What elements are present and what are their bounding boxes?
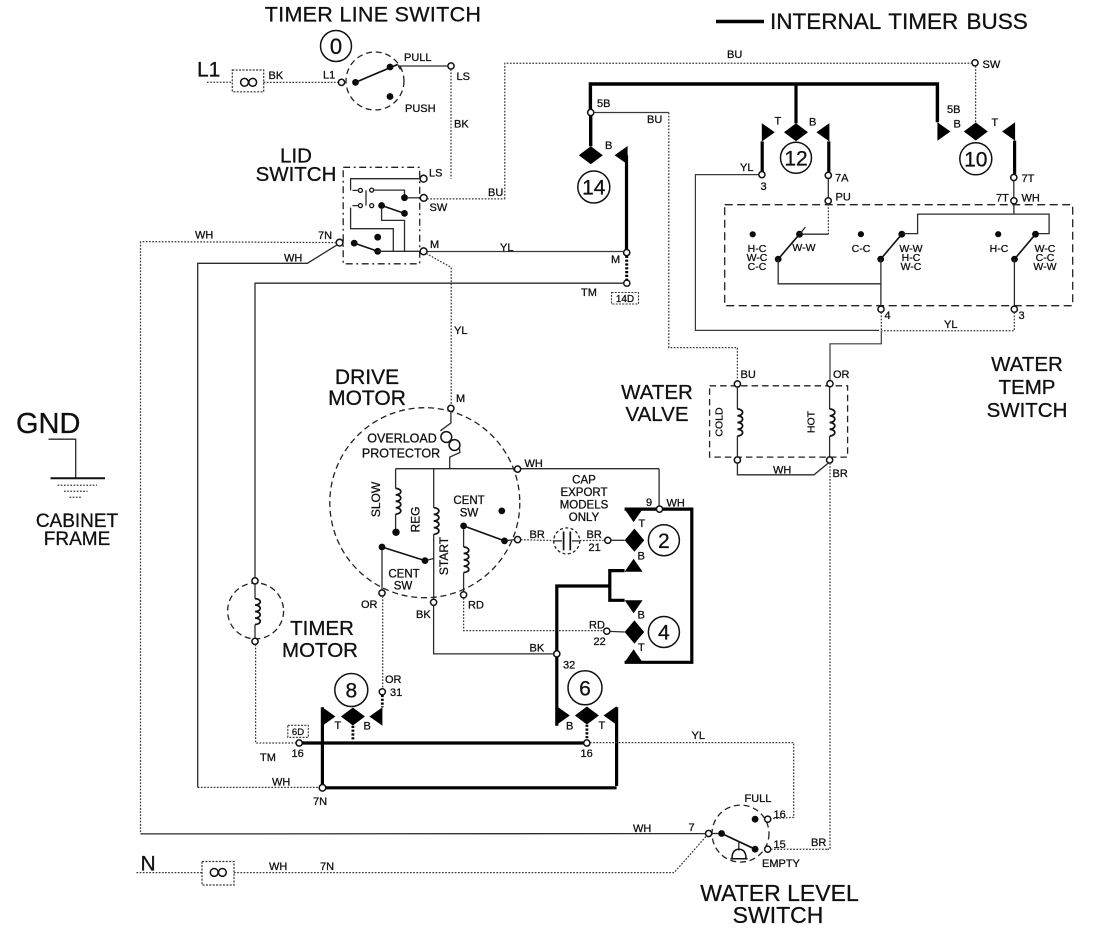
wire 22 to contact 4: [610, 630, 625, 633]
slow winding lead: [395, 469, 397, 489]
svg-text:T: T: [638, 642, 645, 654]
wire BU drop to water valve (dotted): [669, 113, 738, 382]
timer motor coil lead: [254, 584, 256, 599]
lid bottom arm: [354, 243, 378, 251]
terminal PU: [825, 198, 831, 204]
svg-text:0: 0: [330, 34, 342, 59]
label CABINET FRAME: [36, 511, 119, 550]
circle label 10: [960, 143, 992, 175]
svg-text:WH: WH: [1022, 193, 1040, 205]
wire unit1 to lower bus: [778, 259, 881, 284]
terminal BK of drive motor: [431, 599, 437, 605]
svg-text:L1: L1: [197, 58, 220, 81]
svg-text:16: 16: [292, 748, 304, 760]
wire 4 to YL node (dotted): [880, 312, 882, 330]
wire YL lid-M to timer-M: [427, 251, 624, 253]
svg-text:5B: 5B: [947, 104, 960, 116]
start winding lower lead: [463, 573, 465, 592]
svg-text:BR: BR: [530, 529, 545, 541]
timer motor enclosure (dashed circle): [228, 583, 284, 639]
wire L1 lead: [207, 81, 232, 83]
svg-text:GND: GND: [16, 408, 80, 440]
svg-text:WH: WH: [773, 465, 791, 477]
circle label 14: [578, 171, 610, 203]
svg-text:10: 10: [964, 148, 987, 171]
timer contact 12 diamond: [784, 123, 808, 141]
boxed label 14D: [612, 293, 639, 306]
terminal LS of lid switch: [420, 175, 427, 182]
svg-text:LS: LS: [429, 168, 442, 180]
slow winding end dot: [392, 529, 399, 536]
wire WH lid 7N lower branch: [198, 245, 338, 788]
upper bus 7T wire: [903, 214, 1049, 234]
svg-text:T: T: [639, 518, 646, 530]
svg-text:SWITCH: SWITCH: [733, 902, 824, 928]
svg-text:7T: 7T: [996, 193, 1009, 205]
switch arm pivot dot: [352, 79, 359, 86]
svg-text:14: 14: [582, 177, 606, 200]
left WH riser (dotted): [140, 242, 142, 834]
terminal 31: [379, 689, 385, 695]
svg-text:B: B: [566, 721, 573, 733]
thick stem 5B to contact 14: [589, 116, 592, 147]
wire BR valve to water level switch (dotted): [827, 463, 830, 849]
timer motor coil: [255, 599, 260, 625]
contact 6 right stem (thick): [615, 707, 618, 786]
wire BU from lid switch SW up and across to SW terminal: [505, 63, 972, 199]
timer motor bottom terminal: [252, 638, 258, 644]
PULL contact dot: [387, 64, 394, 71]
wire 9/WH thick frame: [625, 509, 692, 662]
bottom arm open contact dot: [374, 234, 381, 241]
terminal 4 of water temp switch: [878, 306, 884, 312]
start winding lead: [463, 529, 465, 547]
water level pivot dot: [718, 830, 725, 837]
wire OR lead: [381, 550, 383, 590]
terminal 15 of water level switch: [765, 846, 771, 852]
svg-text:C-C: C-C: [748, 261, 767, 273]
svg-text:8: 8: [345, 680, 357, 703]
svg-text:RD: RD: [468, 600, 484, 612]
terminal 16 left: [296, 740, 302, 746]
wire 5B to BU drop: [594, 112, 669, 114]
timer contact 6 diamond: [575, 707, 599, 725]
svg-text:T: T: [335, 720, 342, 732]
svg-text:YL: YL: [740, 162, 753, 174]
contact 2/4 B bracket (thick): [610, 571, 625, 601]
label CENT SW lower: [388, 569, 419, 593]
timer motor top terminal: [252, 578, 258, 584]
wire LS into box: [351, 179, 421, 191]
wire dot to SW terminal: [407, 197, 420, 199]
svg-text:WH: WH: [667, 498, 685, 510]
wire WH left riser to 7N bottom (dotted): [198, 786, 320, 788]
svg-text:4: 4: [658, 622, 670, 645]
wire row2 pivot down and to M: [382, 209, 420, 251]
svg-text:BK: BK: [269, 70, 284, 82]
svg-text:INTERNAL TIMER BUSS: INTERNAL TIMER BUSS: [770, 9, 1028, 34]
row2 contact small circle a: [358, 204, 362, 208]
timer contact 14 diamond: [579, 146, 603, 164]
svg-text:9: 9: [646, 497, 652, 509]
wire BR to 15 (dotted): [771, 848, 828, 850]
svg-text:BU: BU: [647, 114, 662, 126]
svg-text:CENT: CENT: [453, 495, 484, 507]
wire YL 3 to node (dotted): [881, 312, 1014, 331]
svg-text:DRIVE: DRIVE: [335, 366, 399, 389]
terminal 7T: [1011, 174, 1017, 180]
wire 21 to contact 2: [611, 539, 625, 541]
svg-text:BK: BK: [454, 119, 469, 131]
svg-text:SW: SW: [394, 581, 413, 593]
capacitor C1 enclosure (dashed circle): [554, 528, 580, 554]
svg-text:7T: 7T: [1022, 173, 1035, 185]
svg-text:CENT: CENT: [388, 569, 419, 581]
svg-text:BR: BR: [811, 837, 826, 849]
contact 12 left triangle: [762, 123, 775, 141]
temp sw unit3 arm: [1015, 234, 1036, 259]
contact 8 left triangle: [322, 707, 335, 725]
svg-text:TM: TM: [581, 287, 597, 299]
unit2 lower contact dot: [877, 256, 884, 263]
svg-text:PU: PU: [836, 192, 851, 204]
svg-text:B: B: [364, 721, 371, 733]
wire row2 left leg: [352, 205, 358, 207]
wire 7 to pivot: [712, 833, 719, 835]
reg winding lead: [433, 469, 435, 508]
wire RD motor to 22 (dotted): [464, 598, 604, 631]
svg-text:7A: 7A: [835, 173, 849, 185]
contact 12 right triangle: [816, 123, 829, 141]
temp sw unit2 arm: [881, 234, 902, 259]
svg-text:TIMER: TIMER: [290, 617, 354, 640]
capacitor C1: [554, 532, 580, 551]
labels W-W H-C W-C: [899, 243, 922, 273]
unit1 arm tick: [800, 227, 806, 234]
cold solenoid bottom terminal: [734, 457, 740, 463]
wire SW drop to contact 10 (dotted): [975, 66, 977, 123]
label CENT SW upper: [453, 495, 484, 520]
svg-text:SW: SW: [430, 202, 448, 214]
wire row2 left to bottom: [351, 208, 394, 252]
terminal OR of water valve: [827, 381, 833, 387]
svg-text:TIMER LINE SWITCH: TIMER LINE SWITCH: [265, 3, 482, 27]
boxed label 6D: [288, 725, 309, 738]
contact 4 top triangle: [625, 600, 643, 613]
svg-text:WH: WH: [195, 230, 213, 242]
title LID SWITCH: [256, 145, 337, 187]
overload protector squiggle upper: [440, 412, 451, 431]
svg-text:WATER: WATER: [621, 381, 693, 404]
drive motor enclosure (dashed circle): [330, 408, 520, 598]
wire timer motor to 16 (dotted): [256, 645, 296, 744]
wire 7T stem into bus: [1013, 204, 1015, 214]
terminal 21: [605, 537, 611, 543]
svg-text:OVERLOAD: OVERLOAD: [367, 432, 436, 446]
wire PU to W-W contact: [803, 233, 828, 235]
svg-text:WATER: WATER: [991, 353, 1063, 376]
thick stem contact10-T to terminal 7T: [1013, 141, 1016, 175]
thick stem buss to contact 12: [794, 84, 797, 123]
temp sw unit3 moving contact dot: [1032, 231, 1039, 238]
svg-text:TEMP: TEMP: [999, 376, 1056, 399]
wire row1 contact to SW: [374, 190, 405, 194]
contact 6 diamond stem (thick): [586, 725, 589, 740]
contact 8 right triangle: [369, 707, 382, 725]
terminal 5B: [588, 109, 594, 115]
svg-text:W-C: W-C: [901, 261, 922, 273]
water valve enclosure (dashed box): [710, 386, 848, 457]
terminal TM (timer): [624, 280, 630, 286]
upper cent sw open contact dot: [498, 508, 505, 515]
svg-text:RD: RD: [589, 620, 605, 632]
svg-text:B: B: [809, 117, 816, 129]
svg-text:M: M: [456, 393, 465, 405]
wire bottom contact bus: [378, 250, 405, 252]
contact 8 left stem (thick): [321, 707, 324, 786]
pressure bell stem: [738, 841, 740, 851]
internal timer buss (thick): [590, 84, 937, 122]
svg-text:SLOW: SLOW: [369, 481, 383, 517]
svg-text:B: B: [954, 119, 961, 131]
circle label 2: [648, 525, 679, 556]
wire YL terminal 3 to water temp sw 4: [695, 175, 879, 331]
row2 pivot dot: [378, 202, 385, 209]
terminal 3 of water temp switch: [1011, 306, 1017, 312]
timer contact 10 diamond: [964, 123, 988, 141]
fuse F1 box (line disconnect): [232, 70, 263, 92]
wire WH jumper cold to hot: [737, 463, 828, 475]
label CAP EXPORT MODELS ONLY: [560, 475, 609, 525]
timer contact 4 diamond: [625, 620, 645, 643]
hot solenoid lower lead: [829, 436, 831, 457]
svg-text:LS: LS: [457, 71, 470, 83]
water level arm: [722, 834, 756, 850]
title WATER VALVE: [621, 381, 693, 426]
contact 4 bottom triangle: [625, 649, 643, 662]
hot solenoid bottom terminal: [827, 457, 833, 463]
wire BR motor to capacitor (dotted): [521, 539, 554, 542]
wire unit3 dot to terminal 3: [1013, 259, 1015, 306]
terminal WH of drive motor: [515, 466, 521, 472]
contact 14 terminal triangle: [615, 146, 628, 164]
wire unit2 dot to terminal 4: [880, 259, 882, 306]
start winding coil: [464, 547, 469, 573]
reg winding lower lead: [433, 534, 435, 599]
ground symbol: [51, 478, 106, 497]
svg-text:EXPORT: EXPORT: [560, 487, 607, 499]
switch arm (to PULL): [356, 65, 398, 83]
svg-text:FRAME: FRAME: [44, 529, 111, 550]
overload protector squiggle lower: [450, 449, 460, 469]
title DRIVE MOTOR: [328, 366, 406, 410]
PUSH contact dot: [387, 93, 394, 100]
svg-text:B: B: [605, 140, 612, 152]
cold solenoid lower lead: [736, 436, 738, 457]
terminal 7N bottom: [319, 785, 326, 792]
svg-text:7N: 7N: [320, 861, 334, 873]
wire N to water level switch (dotted): [234, 836, 706, 872]
svg-text:VALVE: VALVE: [625, 403, 688, 426]
terminal OR of drive motor: [379, 590, 385, 596]
wire YL 16 to water level (dotted): [590, 743, 794, 819]
terminal SW of lid switch: [420, 195, 427, 202]
svg-text:WH: WH: [284, 253, 302, 265]
terminal M (timer): [624, 250, 630, 256]
wire 32 to contact 6 (thick): [555, 657, 558, 726]
temp sw unit1 arm: [778, 234, 799, 259]
thick stem contact12-B to terminal 7A: [827, 141, 830, 172]
water level switch enclosure (dashed circle): [712, 805, 769, 862]
svg-text:YL: YL: [454, 325, 467, 337]
svg-text:31: 31: [390, 687, 402, 699]
svg-text:YL: YL: [692, 730, 705, 742]
terminal SW (timer): [972, 60, 978, 66]
svg-text:6: 6: [579, 677, 591, 700]
svg-text:OR: OR: [385, 674, 402, 686]
row1 contact dot: [401, 194, 408, 201]
label OVERLOAD PROTECTOR: [362, 432, 440, 461]
wire node to OR valve terminal: [830, 331, 881, 381]
upper cent sw arm contact dot: [501, 538, 508, 545]
overload protector circle 2: [449, 440, 460, 451]
contact 10 left triangle: [937, 122, 950, 140]
bottom arm contact dot: [374, 248, 381, 255]
wire OR to 31 (dotted): [382, 596, 384, 689]
temp sw unit2 fixed contact dot: [858, 231, 864, 237]
lid bottom arm pivot dot: [351, 240, 358, 247]
labels H-C W-C C-C: [747, 243, 768, 273]
hot valve solenoid lead: [829, 387, 831, 409]
svg-text:TM: TM: [260, 752, 276, 764]
reg winding coil: [434, 508, 439, 535]
contact 6 left triangle: [557, 706, 570, 724]
circle label 4: [648, 617, 679, 648]
svg-text:L1: L1: [323, 70, 335, 82]
hot valve solenoid coil: [830, 409, 835, 436]
contact 2 top triangle: [625, 509, 643, 522]
vertical tie row1-row2: [365, 190, 367, 205]
wire 7T drop: [1013, 181, 1015, 198]
svg-text:BK: BK: [530, 643, 545, 655]
lower cent sw arm contact dot: [422, 557, 429, 564]
svg-text:YL: YL: [500, 242, 513, 254]
svg-text:21: 21: [589, 542, 601, 554]
row2 contact small circle b: [370, 204, 374, 208]
row2 arm contact dot: [401, 210, 408, 217]
lid switch enclosure (dashed box): [343, 167, 420, 263]
svg-text:5B: 5B: [597, 98, 610, 110]
svg-text:WH: WH: [525, 458, 543, 470]
svg-text:BU: BU: [488, 187, 503, 199]
slow winding coil: [396, 488, 401, 514]
svg-text:C-C: C-C: [852, 243, 871, 255]
svg-text:SW: SW: [460, 508, 479, 520]
svg-text:WH: WH: [633, 823, 651, 835]
svg-text:32: 32: [563, 660, 575, 672]
svg-text:2: 2: [658, 530, 670, 553]
wire N under text: [137, 872, 166, 874]
unit3 lower contact dot: [1011, 256, 1018, 263]
title TIMER MOTOR: [282, 617, 358, 662]
svg-text:M: M: [611, 254, 620, 266]
wire WH motor junction bus: [396, 468, 659, 470]
svg-text:EMPTY: EMPTY: [762, 858, 801, 870]
lower cent sw arm: [382, 547, 425, 561]
temp sw unit1 fixed contact dot: [750, 231, 756, 237]
wire arm to LS terminal: [399, 65, 448, 67]
svg-text:HOT: HOT: [806, 410, 818, 433]
thick stem contact12-T to terminal 3: [761, 141, 764, 171]
ground lead: [49, 439, 76, 478]
terminal 7A: [825, 172, 831, 178]
timer contact 2 diamond: [625, 529, 645, 552]
terminal 3 (timer): [759, 172, 765, 178]
svg-text:OR: OR: [833, 369, 850, 381]
row2 arm: [382, 206, 405, 214]
svg-text:START: START: [437, 536, 451, 575]
terminal 7 of water level switch: [706, 830, 712, 836]
terminal 9/WH: [656, 506, 662, 512]
lower cent arm tick: [428, 559, 434, 561]
svg-text:BU: BU: [727, 49, 742, 61]
svg-text:MOTOR: MOTOR: [282, 639, 358, 662]
svg-text:6D: 6D: [292, 727, 304, 738]
terminal 16 of water level switch: [765, 816, 771, 822]
overload protector circle 1: [441, 432, 452, 443]
wire TM terminal to timer motor: [255, 283, 624, 578]
svg-text:7N: 7N: [313, 796, 327, 808]
circle label 6: [568, 671, 602, 705]
svg-text:PUSH: PUSH: [405, 103, 436, 115]
svg-text:T: T: [775, 116, 782, 128]
fuse F2 box (neutral): [202, 862, 234, 886]
svg-text:CAP: CAP: [572, 475, 596, 487]
temp sw unit3 fixed contact dot: [995, 231, 1001, 237]
wire 7A to PU: [827, 179, 829, 198]
wire YL lid M diagonal: [426, 254, 451, 406]
svg-text:BR: BR: [833, 468, 848, 480]
wire fuse to L1 terminal: [264, 81, 339, 83]
svg-text:12: 12: [784, 147, 807, 170]
svg-text:T: T: [992, 117, 999, 129]
svg-text:PROTECTOR: PROTECTOR: [362, 447, 440, 461]
svg-text:M: M: [430, 239, 439, 251]
svg-text:SW: SW: [983, 59, 1001, 71]
temp sw unit1 moving contact dot: [796, 231, 803, 238]
wire bracket to 32 (thick): [557, 586, 610, 651]
svg-text:22: 22: [594, 636, 606, 648]
terminal BR of drive motor: [515, 537, 521, 543]
contact 6 right triangle: [604, 706, 617, 724]
contact 10 right triangle: [1002, 122, 1015, 140]
wire SW terminal to BU riser: [427, 198, 505, 200]
svg-text:4: 4: [885, 310, 891, 322]
circle label 12: [781, 142, 812, 173]
svg-text:3: 3: [1019, 310, 1025, 322]
wire PU into switch (dotted): [827, 204, 829, 234]
wire WH lid 7N to left riser (dotted): [141, 242, 337, 243]
wire arm to BR terminal: [507, 539, 515, 542]
svg-text:B: B: [638, 551, 645, 563]
svg-text:BK: BK: [416, 609, 431, 621]
water temp switch enclosure (dashed box): [725, 205, 1073, 306]
temp sw unit2 moving contact dot: [898, 231, 905, 238]
timer contact 8 diamond: [341, 708, 365, 726]
terminal RD of drive motor: [461, 592, 467, 598]
svg-text:MODELS: MODELS: [560, 500, 609, 512]
svg-text:WH: WH: [269, 861, 287, 873]
